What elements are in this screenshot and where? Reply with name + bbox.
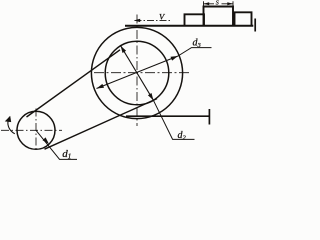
dimension S arrow right xyxy=(227,2,233,5)
d3 leader and shelf xyxy=(178,48,212,56)
d1 radius line with arrow xyxy=(36,130,77,159)
pulley big inner circle d2 xyxy=(105,41,169,105)
svg-text:V: V xyxy=(159,11,166,21)
centerline big pulley horizontal xyxy=(94,72,190,74)
d3 diameter line with arrows xyxy=(97,48,212,89)
wall anchor bottom xyxy=(208,109,210,125)
dimension S extension lines xyxy=(204,1,234,6)
centerline small pulley vertical xyxy=(35,109,37,153)
dimension S line xyxy=(204,3,234,5)
V arrowhead xyxy=(134,19,140,22)
pulley big outer circle d3 xyxy=(91,27,182,118)
box 2 middle package xyxy=(204,7,234,26)
d2 leader and shelf xyxy=(153,100,194,139)
rotation arrowhead xyxy=(5,116,11,122)
V velocity dash-dot line xyxy=(135,19,172,21)
pulley small d1 xyxy=(17,111,55,149)
conveyor bottom line xyxy=(126,115,209,117)
svg-text:S: S xyxy=(216,1,219,7)
svg-text:d3: d3 xyxy=(193,38,202,50)
wall anchor top right xyxy=(254,19,256,32)
centerline big pulley vertical xyxy=(136,15,138,127)
box 3 right package xyxy=(235,12,252,25)
conveyor top line xyxy=(125,25,253,27)
rotation arrow on small pulley xyxy=(8,117,15,134)
belt upper run xyxy=(27,50,121,117)
dimension S arrow left xyxy=(204,2,210,5)
svg-text:d2: d2 xyxy=(178,130,187,142)
d2 diameter line with arrows xyxy=(121,46,195,140)
box 1 left package xyxy=(185,14,205,25)
svg-text:d1: d1 xyxy=(62,148,71,161)
belt lower run xyxy=(45,99,158,150)
centerline small pulley horizontal xyxy=(1,129,62,131)
